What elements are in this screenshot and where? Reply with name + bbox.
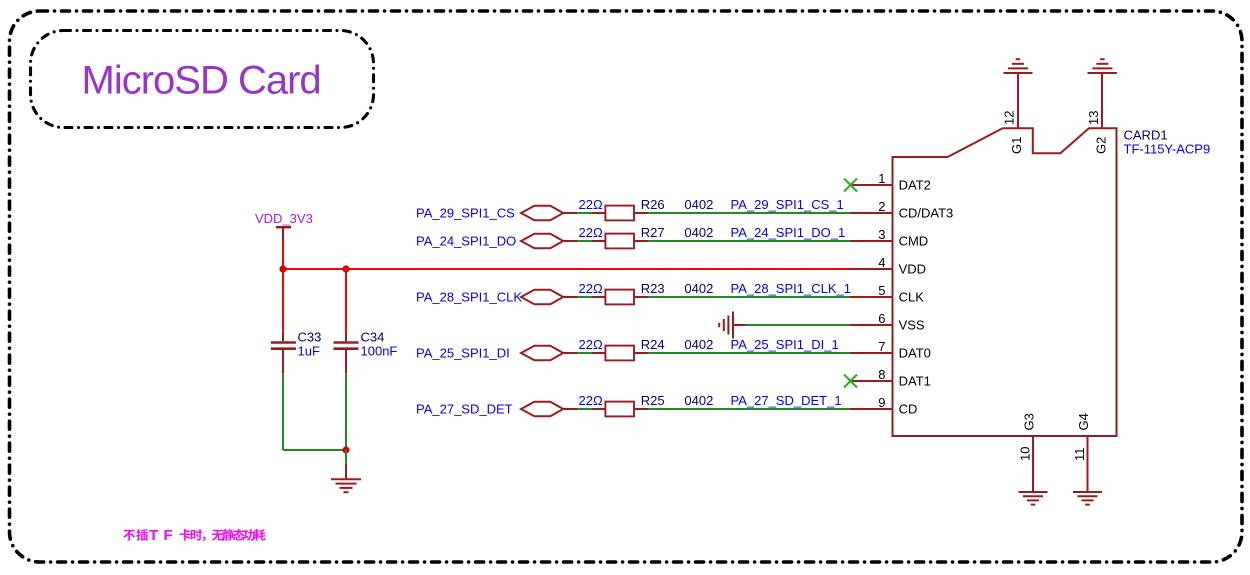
svg-text:PA_28_SPI1_CLK_1: PA_28_SPI1_CLK_1 — [731, 281, 851, 296]
wire C33 red drop — [282, 269, 284, 332]
svg-text:3: 3 — [878, 227, 885, 242]
pin stub — [850, 296, 893, 298]
port PA_28_SPI1_CLK — [416, 290, 577, 305]
svg-text:R27: R27 — [641, 225, 665, 240]
svg-text:R26: R26 — [641, 197, 665, 212]
svg-text:PA_27_SD_DET: PA_27_SD_DET — [416, 402, 513, 417]
svg-text:CD/DAT3: CD/DAT3 — [899, 206, 954, 221]
svg-text:8: 8 — [878, 367, 885, 382]
svg-text:R24: R24 — [641, 337, 665, 352]
svg-text:11: 11 — [1072, 448, 1087, 462]
wire VDD vertical — [282, 240, 284, 269]
svg-text:G3: G3 — [1022, 413, 1037, 430]
svg-text:2: 2 — [878, 199, 885, 214]
svg-text:PA_28_SPI1_CLK: PA_28_SPI1_CLK — [416, 290, 522, 305]
node junction at C33 — [279, 265, 286, 272]
no-connect X pin 8 — [851, 380, 893, 382]
svg-text:9: 9 — [878, 395, 885, 410]
wire — [577, 408, 592, 410]
wire green bottom joining caps — [283, 449, 346, 451]
ground below capacitors — [345, 450, 347, 464]
svg-text:CLK: CLK — [899, 290, 925, 305]
svg-text:6: 6 — [878, 311, 885, 326]
svg-text:VSS: VSS — [899, 318, 925, 333]
svg-text:12: 12 — [1002, 111, 1017, 125]
pin 13 G2 to ground — [1088, 59, 1117, 128]
svg-text:T: T — [149, 527, 158, 544]
resistor R25 22R 0402 — [579, 393, 714, 417]
svg-text:VDD_3V3: VDD_3V3 — [255, 211, 313, 226]
capacitor C33 — [271, 332, 296, 374]
svg-text:10: 10 — [1018, 447, 1033, 461]
port PA_25_SPI1_DI — [416, 346, 577, 361]
svg-text:DAT2: DAT2 — [899, 178, 931, 193]
svg-text:TF-115Y-ACP9: TF-115Y-ACP9 — [1124, 141, 1211, 156]
svg-text:F: F — [164, 527, 173, 544]
svg-text:4: 4 — [878, 255, 885, 270]
wire — [577, 296, 592, 298]
svg-text:R23: R23 — [641, 281, 665, 296]
port PA_29_SPI1_CS — [416, 206, 577, 221]
node junction at C34 — [342, 265, 349, 272]
resistor R26 22R 0402 — [579, 197, 714, 221]
svg-text:G2: G2 — [1094, 137, 1109, 154]
wire VSS — [733, 324, 746, 326]
wire C34 red drop — [345, 269, 347, 332]
wire — [648, 408, 850, 410]
svg-text:PA_25_SPI1_DI_1: PA_25_SPI1_DI_1 — [731, 337, 839, 352]
port PA_24_SPI1_DO — [416, 234, 577, 249]
svg-text:22Ω: 22Ω — [579, 337, 603, 352]
svg-text:C34: C34 — [361, 330, 385, 345]
svg-text:CD: CD — [899, 402, 918, 417]
svg-text:7: 7 — [878, 339, 885, 354]
svg-text:22Ω: 22Ω — [579, 225, 603, 240]
capacitor C34 — [334, 332, 359, 374]
svg-text:PA_24_SPI1_DO: PA_24_SPI1_DO — [416, 234, 516, 249]
wire C34 green down — [345, 373, 347, 450]
svg-text:PA_25_SPI1_DI: PA_25_SPI1_DI — [416, 346, 510, 361]
svg-text:0402: 0402 — [684, 393, 713, 408]
svg-text:R25: R25 — [641, 393, 665, 408]
pin 4 stub — [850, 268, 893, 270]
wire — [648, 352, 850, 354]
pin 12 G1 to ground — [1004, 59, 1033, 128]
resistor R24 22R 0402 — [579, 337, 714, 361]
svg-text:0402: 0402 — [684, 197, 713, 212]
ground at VSS pin 6 — [719, 312, 733, 339]
wire VDD horizontal to pin 4 — [283, 268, 850, 270]
pin 11 G4 to ground — [1073, 436, 1102, 505]
pin 10 G3 to ground — [1019, 436, 1048, 505]
resistor R23 22R 0402 — [579, 281, 714, 305]
wire — [577, 240, 592, 242]
svg-text:0402: 0402 — [684, 337, 713, 352]
title box dash-dot rounded rectangle — [31, 31, 374, 128]
node junction at ground — [342, 446, 349, 453]
svg-text:CARD1: CARD1 — [1124, 127, 1168, 142]
svg-text:13: 13 — [1086, 111, 1101, 125]
svg-text:PA_29_SPI1_CS_1: PA_29_SPI1_CS_1 — [731, 197, 844, 212]
svg-text:1: 1 — [878, 171, 885, 186]
svg-text:G1: G1 — [1009, 137, 1024, 154]
wire — [648, 240, 850, 242]
pin stub — [850, 408, 893, 410]
svg-text:22Ω: 22Ω — [579, 197, 603, 212]
svg-text:0402: 0402 — [684, 281, 713, 296]
connector CARD1 body — [893, 128, 1117, 436]
pin 6 stub — [850, 324, 893, 326]
wire — [648, 212, 850, 214]
wire — [577, 352, 592, 354]
svg-text:0402: 0402 — [684, 225, 713, 240]
svg-text:1uF: 1uF — [298, 344, 320, 359]
svg-text:22Ω: 22Ω — [579, 281, 603, 296]
wire — [577, 212, 592, 214]
svg-text:PA_27_SD_DET_1: PA_27_SD_DET_1 — [731, 393, 842, 408]
svg-text:DAT1: DAT1 — [899, 374, 931, 389]
pin stub — [850, 352, 893, 354]
svg-text:PA_24_SPI1_DO_1: PA_24_SPI1_DO_1 — [731, 225, 846, 240]
pin stub — [850, 212, 893, 214]
svg-text:CMD: CMD — [899, 234, 929, 249]
svg-text:C33: C33 — [298, 330, 322, 345]
no-connect X pin 1 — [851, 184, 893, 186]
svg-text:DAT0: DAT0 — [899, 346, 931, 361]
svg-text:VDD: VDD — [899, 262, 926, 277]
wire C33 green down — [282, 373, 284, 450]
svg-text:G4: G4 — [1076, 413, 1091, 430]
pin stub — [850, 240, 893, 242]
wire — [648, 296, 850, 298]
svg-text:22Ω: 22Ω — [579, 393, 603, 408]
svg-text:MicroSD Card: MicroSD Card — [82, 59, 321, 103]
power flag VDD_3V3 — [255, 211, 313, 240]
port PA_27_SD_DET — [416, 402, 577, 417]
svg-text:5: 5 — [878, 283, 885, 298]
svg-text:100nF: 100nF — [361, 344, 398, 359]
svg-text:PA_29_SPI1_CS: PA_29_SPI1_CS — [416, 206, 515, 221]
note Chinese text magenta — [123, 527, 265, 544]
resistor R27 22R 0402 — [579, 225, 714, 249]
